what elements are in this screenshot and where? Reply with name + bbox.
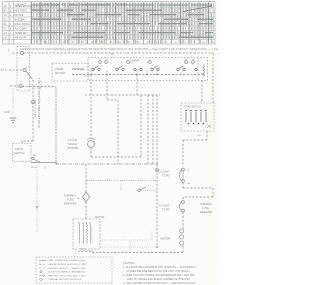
svg-text:OR: OR — [187, 183, 191, 185]
timer terminal row (upper) — [99, 61, 102, 64]
wire: main rail y164 — [56, 163, 157, 165]
svg-text:DOOR: DOOR — [15, 147, 23, 151]
wire: vertical feed to door rail — [55, 87, 57, 163]
svg-text:TIMER SEQUENCE CHART — DIAL PO: TIMER SEQUENCE CHART — DIAL POSITION IN … — [44, 4, 128, 7]
thermal fuse diamond — [83, 192, 90, 202]
timer internal partition — [197, 58, 199, 81]
svg-text:LINE VOLTAGE FIELD WIRING ONLY: LINE VOLTAGE FIELD WIRING ONLY — [48, 259, 86, 262]
legend box — [36, 257, 112, 283]
wire: drop x157 long — [156, 95, 158, 247]
wire: riser x121 — [120, 181, 122, 191]
start switch arrow — [207, 124, 211, 128]
terminal circle on x157 — [156, 169, 159, 172]
svg-text:SIGNAL: SIGNAL — [68, 142, 78, 146]
svg-text:HEATER: HEATER — [160, 237, 170, 241]
wire: rail tick at timer — [111, 53, 113, 58]
legend rows — [48, 259, 87, 281]
chart annotation arrow — [183, 6, 212, 12]
svg-text:FUSE: FUSE — [202, 206, 209, 210]
svg-text:TIMER: TIMER — [130, 59, 140, 63]
ground wire GRN — [10, 85, 19, 87]
svg-text:AUTO DRY: AUTO DRY — [15, 28, 28, 31]
svg-text:TIMER: TIMER — [55, 67, 63, 71]
motor lead squiggle — [78, 251, 94, 252]
start switch contacts — [186, 112, 206, 122]
svg-text:GROUND CIRCUIT — CABINET GND: GROUND CIRCUIT — CABINET GND — [48, 267, 86, 270]
svg-text:2. WIRE COLORS SHOWN FOR REFER: 2. WIRE COLORS SHOWN FOR REFERENCE ONLY … — [123, 274, 195, 277]
wire: start switch out — [206, 131, 208, 140]
svg-text:BK W: BK W — [80, 249, 87, 251]
wire: motor exit y247 — [100, 246, 157, 248]
svg-text:TIMED DRY: TIMED DRY — [15, 32, 29, 35]
junction door switch rail — [55, 162, 57, 164]
svg-text:MOTOR: MOTOR — [15, 14, 24, 17]
cycling thermostat symbol — [182, 168, 185, 171]
wire: tstat lower loop — [182, 183, 184, 189]
svg-text:GRN: GRN — [4, 110, 10, 114]
svg-text:BUZZER: BUZZER — [15, 19, 25, 22]
timer relay coil — [203, 65, 204, 77]
svg-text:START SWITCH: START SWITCH — [184, 106, 201, 109]
wire: door switch output — [31, 162, 56, 164]
contact stubs to bus — [90, 71, 92, 75]
wire: drop x107 and jog — [106, 75, 108, 101]
ground symbol — [10, 118, 17, 122]
wire: timer to start switch — [201, 81, 203, 104]
svg-text:CYCLING: CYCLING — [158, 170, 170, 174]
wire: right edge drop to start switch — [212, 53, 214, 103]
svg-text:BU: BU — [198, 135, 201, 137]
wire: motor branch drop — [85, 164, 87, 192]
chart tick marks — [32, 3, 213, 44]
wire: lower rail y95 — [85, 94, 160, 96]
svg-text:L: L — [8, 49, 10, 53]
motor box — [73, 219, 100, 249]
timer box — [88, 58, 208, 81]
wire: ground drop — [12, 88, 14, 117]
chart scale row — [43, 42, 215, 44]
svg-text:TIMER CONTACTS AND TERMINAL DE: TIMER CONTACTS AND TERMINAL DESIGNATIONS… — [20, 48, 218, 51]
svg-text:MOTOR: MOTOR — [55, 71, 65, 75]
timer motor coil — [72, 69, 84, 71]
buzzer symbol — [88, 141, 95, 148]
terminal circle N — [23, 69, 26, 72]
wire: buzzer to rail — [90, 148, 92, 158]
motor windings — [78, 224, 81, 244]
terminal block outline — [17, 47, 30, 92]
svg-text:SWITCH: SWITCH — [14, 151, 24, 155]
svg-text:POWER BEFORE SERVICING THE UNI: POWER BEFORE SERVICING THE UNIT CONTROLS… — [127, 270, 190, 273]
wire: drop x137 to lower rail — [136, 75, 138, 96]
wire: drop to buzzer — [90, 75, 92, 139]
svg-text:THERMAL PROTECTOR DEVICE: THERMAL PROTECTOR DEVICE — [48, 278, 82, 281]
wire: step from timer motor — [40, 81, 42, 88]
svg-text:SEE NOTE 1 AND 2: SEE NOTE 1 AND 2 — [34, 97, 37, 118]
wire: hi-limit to heater — [182, 212, 184, 228]
wire: drop x141 — [140, 95, 142, 157]
svg-text:MOTOR: MOTOR — [95, 216, 104, 219]
splice symbol — [31, 100, 35, 104]
svg-text:TSTAT: TSTAT — [162, 208, 170, 212]
svg-text:HEAT REG.: HEAT REG. — [15, 10, 28, 13]
switch blade at N — [26, 71, 33, 80]
svg-text:CAUTION:: CAUTION: — [123, 262, 135, 265]
svg-text:BK-W: BK-W — [31, 167, 38, 169]
svg-text:QUICK DISCONNECT TERMINAL NO.: QUICK DISCONNECT TERMINAL NO. — [48, 271, 86, 274]
wire: motor exit y240 — [100, 239, 152, 241]
wire: motor bottom exit — [74, 249, 76, 258]
wire: L supply to top rail — [12, 52, 21, 54]
svg-text:WIRE NUT OR CLOSED END CONN.: WIRE NUT OR CLOSED END CONN. — [48, 275, 86, 277]
timer motor box — [52, 64, 88, 82]
timer sequence chart table — [3, 2, 216, 45]
svg-text:BREAKER: BREAKER — [64, 202, 77, 206]
svg-text:BK W-TR TO TIMER SEQUENCE SW.: BK W-TR TO TIMER SEQUENCE SW. NO. 2 — [38, 77, 41, 128]
terminal circle GRN — [19, 85, 22, 88]
svg-text:CABINET WIRING SUPPLIED W. UNI: CABINET WIRING SUPPLIED W. UNIT — [48, 263, 87, 266]
wire: drop x153 — [152, 95, 154, 164]
door switch contacts — [32, 157, 34, 159]
timer bus line — [72, 74, 205, 76]
svg-text:W: W — [187, 170, 189, 172]
wire: top rail — [24, 52, 214, 54]
wire: dotted drop x37 — [36, 165, 38, 232]
junction dots on bus — [90, 74, 91, 75]
wire: into hi-limit — [182, 197, 184, 200]
wire: ground run right — [22, 86, 56, 88]
svg-text:THERMAL: THERMAL — [200, 202, 213, 206]
svg-text:OFF: OFF — [43, 42, 48, 44]
heater coil — [180, 229, 184, 233]
cam closure segments — [32, 5, 213, 37]
svg-text:( ): ( ) — [44, 167, 46, 169]
svg-text:N: N — [1, 68, 4, 72]
svg-text:BUZZER: BUZZER — [68, 146, 79, 150]
chart caption — [20, 48, 248, 51]
notes block — [123, 262, 197, 285]
wire: fuse to motor — [85, 202, 87, 219]
aux switch contact — [138, 189, 140, 191]
wire: heater return — [182, 247, 184, 253]
svg-text:TSTAT: TSTAT — [162, 174, 170, 178]
svg-text:COOL DOWN: COOL DOWN — [15, 23, 30, 26]
table row labels — [4, 4, 129, 40]
svg-text:HI-LIMIT: HI-LIMIT — [159, 204, 170, 208]
svg-text:VARY BY MODEL AND SERIAL NUMBE: VARY BY MODEL AND SERIAL NUMBER OF THE U… — [127, 278, 191, 281]
door switch box — [13, 144, 32, 162]
motor centrifugal contacts — [91, 226, 93, 244]
wire: drop x148 — [147, 95, 149, 164]
svg-text:THERMAL: THERMAL — [64, 194, 77, 198]
wire: aux switch lead — [141, 190, 158, 192]
svg-text:FUSE: FUSE — [67, 198, 74, 202]
svg-text:AIR FLUFF: AIR FLUFF — [15, 37, 28, 40]
timer contact row — [92, 68, 94, 70]
wire: N supply — [5, 69, 23, 71]
wire: N drop to door switch — [32, 80, 34, 141]
wire: rail y180 — [87, 180, 157, 182]
hi-limit thermostat symbol — [182, 201, 185, 204]
svg-text:BREAKER: BREAKER — [200, 210, 213, 214]
terminal circle L — [21, 52, 24, 55]
arrowhead on x37 — [36, 206, 38, 209]
svg-text:1. ALL SWITCHES SHOWN IN OFF P: 1. ALL SWITCHES SHOWN IN OFF POSITION — … — [123, 266, 197, 269]
wire: rail y157 — [91, 156, 141, 158]
start switch box — [181, 103, 214, 131]
svg-text:CYCLE: CYCLE — [68, 138, 77, 142]
svg-text:CONTACT: CONTACT — [15, 4, 27, 7]
contact blades — [94, 66, 99, 69]
